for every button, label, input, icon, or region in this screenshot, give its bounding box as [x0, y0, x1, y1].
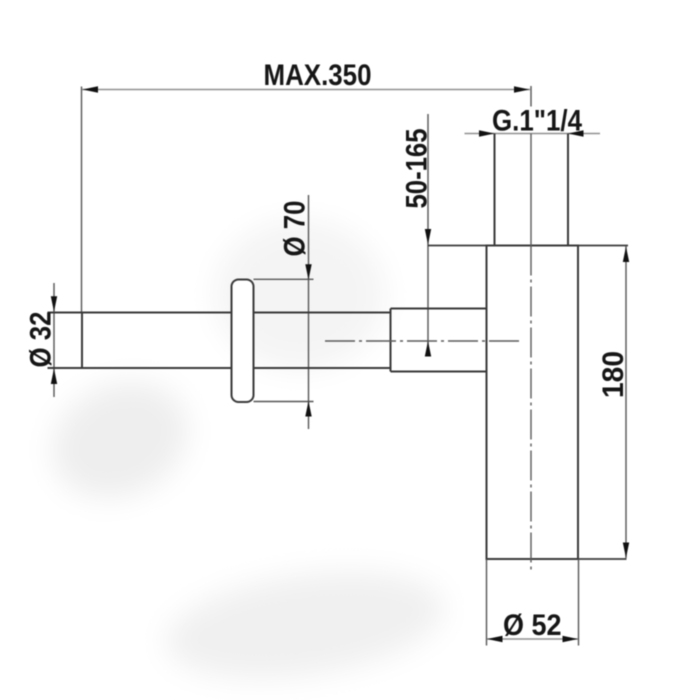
wire: dia70 bottom extension line: [254, 401, 314, 403]
arrow: dia32 top (points down): [51, 296, 57, 312]
arrow: dia52 left (points left): [487, 636, 503, 642]
wire: dia52 left extension line: [486, 559, 488, 646]
arrow: dia52 right (points right): [563, 636, 579, 642]
body top edge extended right to 180 dim: [578, 245, 628, 247]
arrow: 180 bottom (points down): [623, 543, 629, 559]
arrow: G left (points right): [479, 130, 495, 136]
wire: MAX.350 right extension tick: [530, 86, 532, 107]
body top edge extended left to 50-165 dim: [428, 245, 487, 247]
svg-text:Ø 32: Ø 32: [25, 312, 58, 368]
top pipe left edge: [494, 134, 496, 246]
arrow: dia32 bottom (points up): [51, 369, 57, 385]
svg-text:G.1"1/4: G.1"1/4: [492, 105, 582, 138]
wire: MAX.350 dimension line: [82, 89, 530, 91]
centerline: vertical axis solid part inside top pipe: [530, 134, 532, 246]
pipe: horizontal inlet pipe top edge: [48, 312, 391, 314]
flange disc dia70: [232, 280, 254, 403]
arrow: MAX.350 right: [514, 86, 530, 92]
wire: 50-165 dimension line: [427, 114, 429, 353]
svg-text:50-165: 50-165: [401, 129, 434, 209]
svg-text:180: 180: [597, 351, 630, 398]
centerline: horizontal axis of pipe: [325, 340, 519, 342]
arrow: 50-165 bottom (points up): [425, 341, 431, 357]
watermark blob left: [33, 361, 206, 520]
wire: G dimension line: [465, 133, 601, 135]
watermark blob mid: [215, 220, 385, 370]
svg-text:Ø 52: Ø 52: [503, 609, 562, 642]
wire: dia32 dimension line: [53, 283, 55, 397]
wire: dia70 top extension line: [254, 278, 314, 280]
wire: dia52 right extension line: [578, 559, 580, 646]
wire: 180 dimension line: [625, 246, 627, 558]
pipe: horizontal inlet pipe left end cap: [81, 313, 83, 369]
pipe: horizontal inlet pipe bottom edge: [48, 367, 391, 369]
wire: dia70 dimension line: [308, 195, 310, 429]
arrow: 180 top (points up): [623, 247, 629, 263]
arrow: G right (points left): [568, 130, 584, 136]
centerline: vertical axis dash-dot inside body: [530, 246, 532, 573]
connector sleeve between pipe and body: [391, 308, 487, 310]
wire: MAX.350 left extension line: [81, 87, 83, 314]
wire: dia52 dimension line: [487, 638, 578, 640]
trap body cylinder: [487, 246, 579, 560]
arrow: 50-165 top (points down): [425, 229, 431, 245]
svg-text:Ø 70: Ø 70: [279, 201, 312, 257]
top pipe right edge: [567, 134, 569, 246]
body bottom edge extended right to 180 dim: [578, 558, 627, 560]
arrow: MAX.350 left: [83, 86, 99, 92]
svg-text:MAX.350: MAX.350: [264, 59, 372, 92]
arrow: dia70 top (points down): [305, 264, 311, 280]
arrow: dia70 bottom (points up): [305, 401, 311, 417]
watermark blob bottom: [159, 556, 450, 694]
